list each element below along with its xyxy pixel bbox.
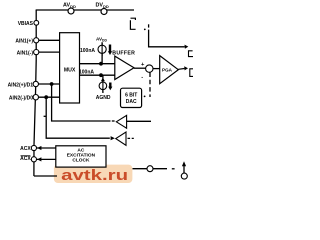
wire top-right vertical dash — [148, 24, 150, 27]
terminal AVDD — [68, 8, 74, 14]
wire MUX out top to buffer — [80, 63, 115, 65]
svg-text:DAC: DAC — [126, 99, 137, 105]
junction buffer top — [99, 62, 103, 66]
terminal VBIAS — [34, 20, 39, 25]
svg-text:ACX: ACX — [20, 146, 31, 152]
svg-text:DVDD: DVDD — [96, 3, 109, 10]
terminal AIN2(-)/D0 — [33, 95, 38, 100]
wire T1 output right — [127, 120, 151, 122]
MUX box — [60, 33, 80, 103]
6-bit DAC box — [121, 88, 142, 107]
terminal DVDD — [101, 9, 107, 15]
amplifier T1 — [116, 115, 126, 128]
svg-text:AVDD: AVDD — [63, 3, 76, 10]
amplifier T2 — [116, 132, 126, 145]
svg-text:MUX: MUX — [64, 68, 76, 74]
wire summing node to PGA — [153, 68, 160, 70]
wire current source top stem — [101, 42, 103, 64]
terminal ACXbar — [31, 157, 36, 162]
svg-text:AIN1(-): AIN1(-) — [17, 50, 34, 56]
junction AIN2(-) — [44, 95, 48, 99]
op-amp PGA — [160, 56, 179, 84]
svg-text:6 BIT: 6 BIT — [125, 92, 137, 98]
chip border top — [36, 9, 134, 11]
svg-text:100nA: 100nA — [80, 48, 95, 54]
arrowhead into T2 — [111, 136, 115, 140]
terminal AIN1(+) — [34, 38, 39, 43]
wire T2 output dashes — [128, 137, 134, 139]
dot right of DAC — [144, 96, 146, 98]
svg-text:VBIAS: VBIAS — [18, 21, 34, 27]
wire bottom right pin stem — [183, 166, 185, 174]
wire AIN1(-) to MUX — [39, 51, 60, 53]
junction AIN2(+) — [50, 82, 54, 86]
sigma bracket glyph — [130, 18, 135, 29]
summing node — [146, 65, 153, 72]
chip border left — [34, 10, 36, 176]
AC excitation clock box — [56, 146, 106, 167]
watermark avtk.ru background — [54, 165, 132, 183]
wire AIN2(-)/D0 to MUX — [39, 96, 60, 98]
wire AIN1(+) to MUX — [39, 39, 60, 41]
wire current source bottom stem — [102, 75, 104, 93]
wire bottom right horizontal — [133, 168, 168, 170]
terminal AIN1(-) — [34, 50, 39, 55]
tick on drop wire — [44, 115, 47, 117]
svg-text:avtk.ru: avtk.ru — [61, 167, 128, 183]
svg-text:AGND: AGND — [96, 95, 111, 101]
current source I1 — [98, 45, 106, 53]
op-amp buffer — [115, 56, 134, 79]
terminal ACX — [31, 145, 36, 150]
terminal AIN2(+)/D1 — [33, 81, 38, 86]
dot near sigma — [144, 29, 146, 31]
wire top-right L to modulator — [149, 30, 185, 47]
PGA output arrow — [178, 68, 184, 71]
wire MUX out bottom to buffer — [80, 74, 115, 76]
junction buffer bottom — [99, 73, 103, 77]
wire AIN2(+) drop to T1 — [52, 84, 111, 121]
svg-text:AIN1(+): AIN1(+) — [15, 39, 33, 45]
arrowhead to ACX — [37, 146, 41, 150]
svg-text:100nA: 100nA — [79, 70, 94, 76]
svg-text:PGA: PGA — [162, 68, 173, 73]
svg-text:AIN2(+)/D1: AIN2(+)/D1 — [8, 82, 34, 88]
arrowhead to ACXbar — [37, 157, 41, 161]
wire ACXbar to box — [37, 158, 56, 160]
svg-text:AIN2(-)/D0: AIN2(-)/D0 — [9, 96, 33, 102]
wire buffer to summing node — [134, 67, 146, 69]
wire ACX to box — [37, 147, 56, 149]
svg-text:ACX: ACX — [20, 156, 31, 162]
terminal bottom right open circle — [147, 166, 153, 172]
svg-text:EXCITATION: EXCITATION — [67, 152, 96, 158]
svg-text:CLOCK: CLOCK — [72, 158, 90, 164]
svg-text:BUFFER: BUFFER — [112, 50, 135, 56]
modulator box edge lower — [190, 69, 193, 77]
wire AIN2(-) drop to T2 — [46, 97, 110, 138]
wire dash before T1 apex — [112, 120, 115, 122]
pin bottom right with up arrow — [181, 173, 187, 179]
wire summing node to DAC dashed — [149, 73, 151, 98]
bold arrow beside I1 — [109, 45, 111, 52]
current source I2 — [99, 82, 107, 90]
wire bottom right dash — [172, 168, 175, 170]
svg-text:AC: AC — [77, 147, 84, 153]
bold arrow beside I2 — [109, 83, 111, 88]
wire AIN2(+)/D1 to MUX — [39, 83, 60, 85]
modulator box edge upper — [189, 51, 194, 57]
svg-text:-: - — [141, 75, 143, 81]
arrowhead top-right wire — [185, 45, 189, 49]
chip border bottom — [34, 175, 57, 177]
